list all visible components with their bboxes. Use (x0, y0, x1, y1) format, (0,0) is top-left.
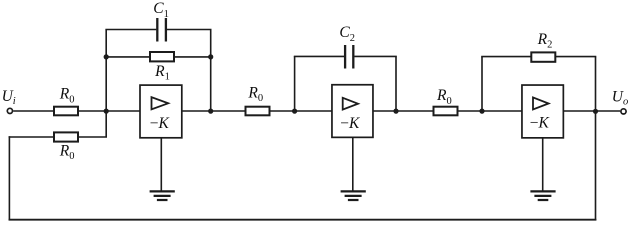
node amp1 output (208, 109, 213, 114)
ground amp3 (530, 191, 555, 200)
ground stem amp2 (352, 137, 354, 190)
node R1 right junction (208, 54, 213, 59)
wire vertical feedback leg x=210.5 (210, 30, 212, 112)
resistor R0 (stage2 input) (246, 107, 270, 116)
svg-text:R0: R0 (59, 143, 75, 163)
svg-text:R0: R0 (247, 84, 263, 104)
op-amp U1 triangle (152, 97, 169, 109)
wire bottom R0 lead right (78, 136, 107, 138)
svg-text:C1: C1 (153, 0, 169, 20)
svg-text:−K: −K (530, 115, 550, 132)
node A (summing node 1) (104, 109, 109, 114)
ground amp2 (341, 191, 366, 200)
svg-text:R0: R0 (59, 86, 75, 106)
op-amp U1 box (140, 85, 182, 138)
wire R1 row right (175, 56, 212, 58)
wire C2 right leg (395, 56, 397, 111)
node B (summing node 2) (292, 109, 297, 114)
svg-text:−K: −K (340, 115, 360, 132)
wire R2 row right (555, 56, 596, 58)
wire R2 left leg (481, 57, 483, 111)
wire R1 row left (105, 56, 150, 58)
wire bottom R0 lead left (9, 136, 54, 138)
input terminal Ui (7, 108, 12, 113)
op-amp U3 triangle (533, 97, 549, 109)
node C (summing node 3) (479, 109, 484, 114)
wire R0a to amp1 (78, 110, 140, 112)
wire R2 right leg / feedback vertical (595, 57, 597, 220)
resistor R2 (531, 52, 555, 61)
wire C2 row right (354, 55, 396, 57)
ground stem amp3 (542, 138, 544, 191)
output terminal Uo (621, 109, 626, 114)
svg-text:R2: R2 (537, 31, 553, 51)
wire amp1 to R0c (182, 110, 246, 112)
wire C1 row left (105, 29, 156, 31)
svg-text:C2: C2 (339, 24, 355, 44)
wire R2 row left (481, 56, 531, 58)
svg-text:Ui: Ui (2, 88, 16, 107)
op-amp U2 box (332, 85, 373, 138)
capacitor C2 (345, 45, 353, 69)
node R1 left junction (104, 54, 109, 59)
wire amp3 to output (563, 110, 620, 112)
svg-text:−K: −K (150, 115, 170, 132)
resistor R0 (top input) (54, 107, 78, 116)
wire amp2 to R0d (373, 110, 434, 112)
wire vertical feedback leg x=106 (105, 30, 107, 138)
wire C2 left leg (294, 56, 296, 111)
wire C2 row left (294, 55, 344, 57)
resistor R0 (stage3 input) (434, 107, 458, 116)
node output (593, 109, 598, 114)
ground stem amp1 (160, 138, 162, 191)
node amp2 output (393, 109, 398, 114)
resistor R1 (150, 52, 174, 61)
ground amp1 (150, 191, 175, 200)
capacitor C1 (157, 18, 166, 42)
wire R0d to amp3 (458, 110, 523, 112)
wire C1 row right (167, 29, 212, 31)
op-amp U3 box (522, 85, 563, 138)
op-amp U2 triangle (343, 98, 358, 110)
svg-text:Uo: Uo (612, 88, 628, 107)
svg-text:R0: R0 (436, 87, 452, 107)
wire bottom feedback rail (9, 219, 597, 221)
resistor R0 (bottom feedback) (54, 132, 78, 141)
wire R0c to amp2 (270, 110, 333, 112)
wire left feedback vertical (8, 136, 10, 220)
svg-text:R1: R1 (154, 63, 170, 83)
wire input to R0a (13, 110, 54, 112)
